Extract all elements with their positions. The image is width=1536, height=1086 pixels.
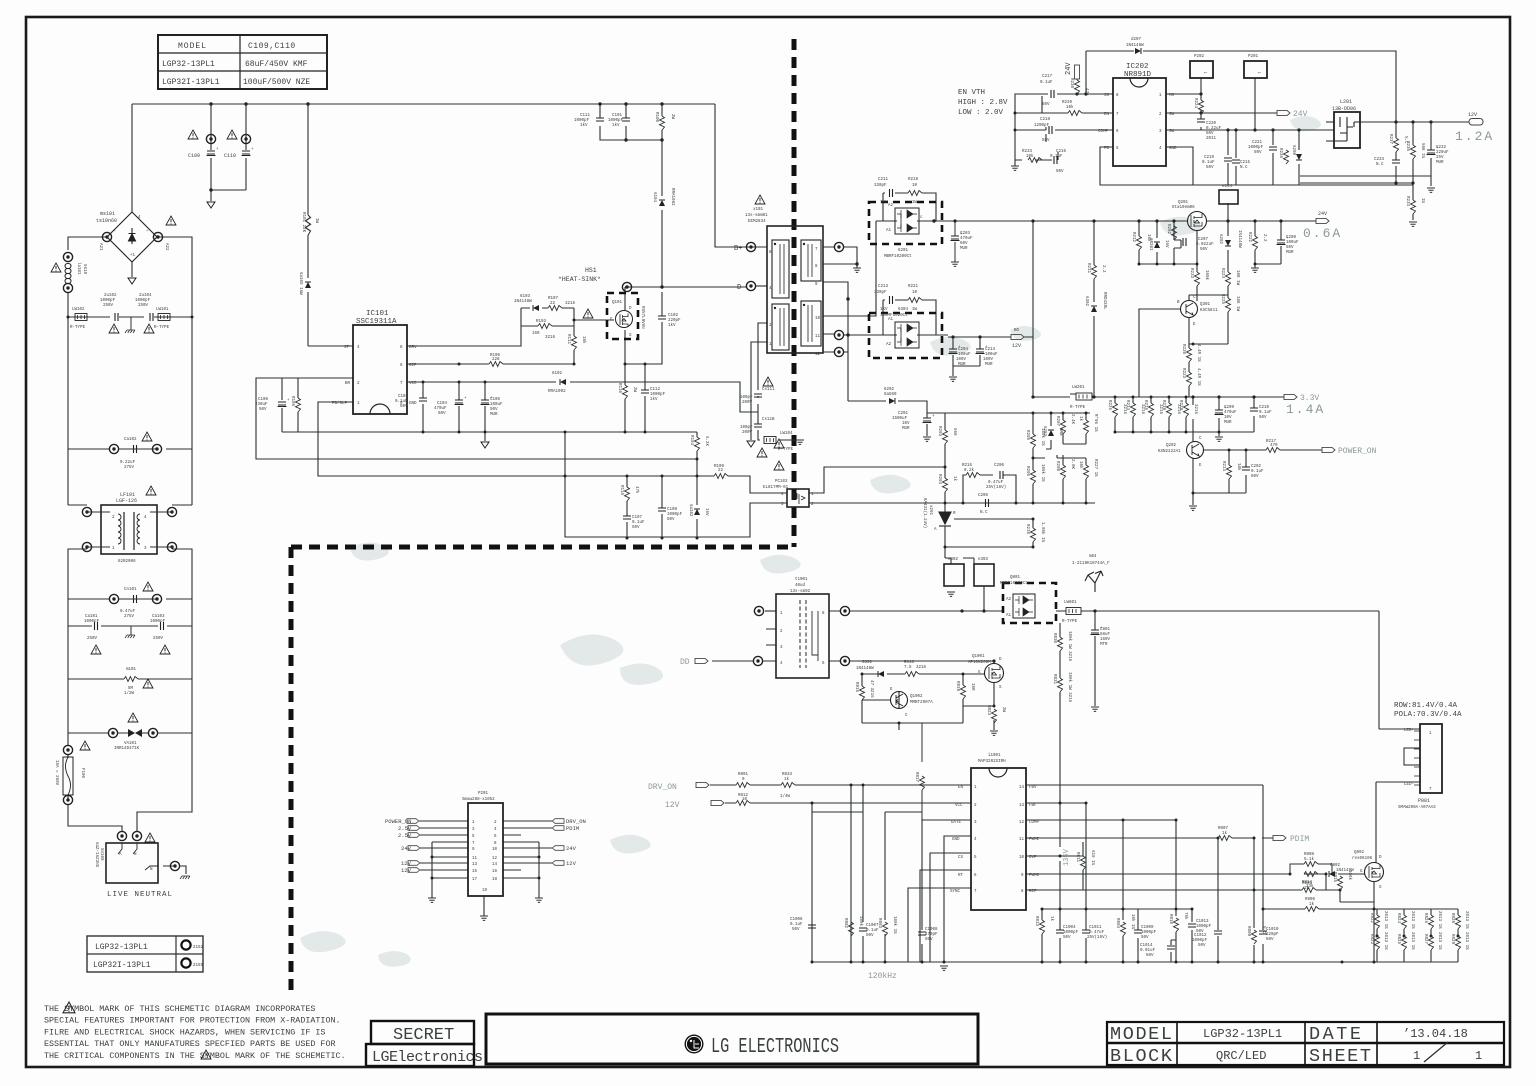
svg-text:i1001: i1001	[988, 753, 1001, 758]
svg-text:R226: R226	[1107, 400, 1111, 411]
svg-text:50V: 50V	[1141, 936, 1149, 940]
svg-text:6302: 6302	[1084, 296, 1088, 307]
svg-text:19: 19	[482, 889, 488, 893]
svg-text:4: 4	[974, 838, 977, 842]
svg-text:Q301: Q301	[1200, 303, 1211, 307]
svg-text:50V: 50V	[1259, 416, 1267, 420]
svg-text:10k: 10k	[1236, 463, 1241, 471]
diode 6103 1N4148W	[533, 305, 539, 311]
wire P201 pin19	[483, 896, 485, 916]
capacitor C103 0.1uF 50V	[419, 398, 427, 401]
capacitor C218 1200pF 50V	[1049, 126, 1052, 134]
svg-text:50V: 50V	[1146, 954, 1154, 958]
wire GIP net	[407, 363, 574, 365]
diode d207 1N4148W	[1135, 48, 1141, 54]
svg-text:MUR: MUR	[1286, 251, 1294, 255]
resistor R104 6.2K	[695, 437, 700, 451]
svg-text:4.4R 1%: 4.4R 1%	[1196, 368, 1200, 386]
heat sink HS1 dashed box + Q101	[607, 293, 638, 339]
svg-text:MUR: MUR	[902, 427, 910, 431]
capacitor C209 470uF 10V MUR	[1215, 407, 1228, 415]
svg-text:C101: C101	[612, 114, 623, 118]
wire C109 C110 drops	[211, 104, 246, 201]
node BD 12V flag	[1011, 334, 1024, 339]
svg-text:25V: 25V	[1436, 156, 1444, 160]
wire 3.3V rail	[1033, 394, 1284, 397]
wire P201 left pins	[419, 821, 468, 878]
svg-text:R816: R816	[854, 682, 858, 693]
capacitor 2a104 1000pF 250V	[150, 313, 153, 321]
svg-text:ROW:81.4V/0.4A: ROW:81.4V/0.4A	[1394, 702, 1458, 710]
svg-text:10K 1W: 10K 1W	[1235, 296, 1239, 312]
capacitor C220 0.22uF 50V 2011	[1197, 119, 1205, 122]
svg-text:1: 1	[1159, 94, 1162, 98]
svg-text:10k 1%: 10k 1%	[1130, 914, 1135, 930]
wire Ca101 row y626	[68, 599, 192, 733]
svg-text:250V: 250V	[138, 304, 149, 308]
svg-text:50V: 50V	[1042, 139, 1050, 143]
svg-text:1500uF: 1500uF	[892, 417, 908, 421]
svg-text:C102: C102	[668, 314, 679, 318]
svg-text:BD: BD	[1014, 329, 1020, 333]
svg-text:LGP32-13PL1: LGP32-13PL1	[95, 943, 148, 952]
svg-text:GATE: GATE	[951, 821, 962, 825]
wire t1001 pin8 out	[829, 586, 1003, 611]
capacitor C1010 220pF 50V	[1259, 931, 1267, 934]
svg-text:6a105 16W: 6a105 16W	[298, 272, 302, 295]
svg-text:R808: R808	[1304, 853, 1315, 857]
resistor bank R822-R829	[1369, 911, 1468, 950]
svg-text:R101 22K: R101 22K	[301, 212, 305, 233]
wire C103 C104 C105	[423, 382, 485, 441]
svg-text:MUR: MUR	[985, 363, 993, 367]
svg-text:C214: C214	[985, 348, 996, 352]
SECRET box	[366, 1021, 483, 1066]
svg-text:9: 9	[1021, 874, 1024, 878]
svg-text:C1014: C1014	[1140, 944, 1153, 948]
svg-text:C107: C107	[632, 516, 643, 520]
svg-text:R236: R236	[1278, 148, 1282, 159]
svg-text:E: E	[890, 688, 893, 692]
svg-text:3216: 3216	[916, 666, 927, 670]
svg-text:N.C: N.C	[980, 511, 988, 515]
svg-text:R827: R827	[1423, 934, 1427, 945]
svg-text:*HEAT-SINK*: *HEAT-SINK*	[558, 276, 601, 283]
svg-text:10k: 10k	[1078, 461, 1083, 469]
svg-text:C104: C104	[437, 402, 448, 406]
svg-text:C111: C111	[580, 114, 591, 118]
text EN VTH	[958, 89, 1008, 117]
svg-text:50V: 50V	[1206, 166, 1214, 170]
transformer T101 x101 13s-smm01 EEM2834	[745, 195, 823, 357]
svg-text:0.1uF: 0.1uF	[1251, 470, 1264, 474]
svg-text:C215: C215	[1240, 161, 1251, 165]
svg-text:SW: SW	[1169, 113, 1175, 117]
svg-text:1kV: 1kV	[650, 397, 658, 402]
svg-text:R223: R223	[1181, 368, 1185, 379]
svg-text:e144: e144	[1222, 185, 1233, 189]
svg-text:16V: 16V	[704, 508, 708, 516]
svg-text:1000pF: 1000pF	[84, 620, 100, 624]
svg-text:1: 1	[112, 547, 115, 551]
svg-text:R826: R826	[1423, 913, 1427, 924]
svg-text:250V: 250V	[87, 637, 98, 641]
svg-text:la101: la101	[76, 262, 81, 275]
svg-text:A2: A2	[1006, 598, 1012, 602]
svg-text:50V: 50V	[1251, 475, 1259, 479]
wire Q301 snubber	[883, 193, 936, 221]
svg-text:e302: e302	[948, 558, 959, 562]
svg-text:6a102: 6a102	[688, 504, 692, 517]
svg-text:C1012: C1012	[1194, 934, 1207, 938]
svg-text:R205: R205	[1025, 430, 1029, 441]
svg-text:47k: 47k	[634, 486, 639, 494]
svg-text:10: 10	[912, 291, 918, 295]
svg-text:R103: R103	[536, 320, 547, 324]
bridge rectifier ms101	[107, 212, 157, 262]
wire bridge left to filter	[68, 237, 107, 317]
watermark blobs	[300, 116, 1321, 967]
pad t101 pin7	[834, 242, 843, 251]
resistor R802 100k	[849, 922, 854, 936]
wire P144 drop + diode R224 R225 chain	[1227, 203, 1229, 344]
svg-text:8: 8	[815, 265, 818, 269]
svg-text:R214: R214	[1221, 461, 1225, 472]
svg-text:C220: C220	[1206, 122, 1217, 126]
svg-text:N: N	[134, 853, 137, 857]
svg-text:R203: R203	[937, 426, 941, 437]
svg-text:COMP: COMP	[1029, 821, 1040, 825]
svg-text:2: 2	[811, 503, 814, 507]
svg-text:ms101: ms101	[100, 211, 115, 217]
svg-text:2013 1%: 2013 1%	[1383, 911, 1387, 929]
svg-text:C1013: C1013	[1196, 920, 1209, 924]
transistor Q802 FDD6635	[1365, 863, 1384, 882]
wire Q201 gate drop	[1196, 231, 1198, 301]
fuse F100 15A 250V	[63, 745, 72, 754]
wire P202 drop	[1200, 78, 1202, 94]
wire aux winding cluster	[751, 323, 800, 440]
svg-text:50V: 50V	[1198, 944, 1206, 948]
connector P303	[974, 564, 994, 586]
svg-text:D: D	[1379, 856, 1382, 860]
svg-text:10UMF1020Ct: 10UMF1020Ct	[880, 314, 908, 318]
svg-text:R202: R202	[1166, 224, 1170, 235]
svg-text:56K 1%: 56K 1%	[1420, 143, 1424, 159]
svg-text:RRA1002: RRA1002	[548, 390, 566, 394]
capacitor C1007 0.1uF 50V	[859, 928, 867, 931]
capacitor C207 0.022uF 50V	[1183, 238, 1186, 246]
wire SW pin3 to L201	[1166, 78, 1334, 158]
svg-text:25V(16V): 25V(16V)	[986, 485, 1006, 490]
capacitor C208 100uF 50V MUR	[1277, 237, 1290, 245]
svg-text:LED+: LED+	[1404, 729, 1415, 733]
capacitor C106 230uF 50V	[278, 399, 291, 407]
diode 6104 RRA1002	[659, 200, 665, 206]
svg-text:LGElectronics: LGElectronics	[372, 1049, 483, 1066]
wire Q802 area	[1326, 782, 1376, 962]
svg-text:4: 4	[780, 662, 783, 666]
svg-text:610 1%: 610 1%	[1090, 850, 1094, 866]
svg-text:470: 470	[1270, 444, 1278, 448]
svg-text:9: 9	[472, 848, 475, 852]
svg-text:160V: 160V	[1100, 638, 1111, 642]
svg-text:D: D	[999, 658, 1002, 662]
connector P801 SMAW200A-A07AA3	[1398, 724, 1442, 810]
transformer LF101 line filter	[101, 505, 157, 554]
svg-text:1.05k 1%: 1.05k 1%	[1040, 522, 1045, 543]
capacitor Cn101 0.47uF 275V	[109, 594, 118, 603]
wire t1001 pin1 pad	[765, 610, 776, 612]
svg-text:A: A	[934, 528, 937, 532]
capacitor C201 1500uF 10V MUR	[923, 415, 936, 423]
svg-text:6a560: 6a560	[884, 393, 897, 397]
capacitor C801 68uF 160V MTR	[1091, 627, 1104, 635]
svg-text:3216: 3216	[1140, 404, 1144, 415]
svg-text:5: 5	[822, 662, 825, 666]
node PDIM flag	[1273, 835, 1286, 840]
svg-text:res06106: res06106	[1352, 857, 1373, 861]
primary winding sub-boxes	[772, 240, 821, 350]
svg-text:7: 7	[1116, 113, 1119, 117]
svg-text:3216: 3216	[1158, 404, 1162, 415]
svg-text:BR: BR	[345, 382, 351, 386]
resistor R103 160 3216	[538, 324, 552, 329]
svg-text:275V: 275V	[124, 615, 135, 619]
capacitor C1013 1000pF 50V	[1188, 924, 1196, 927]
capacitor C105 100uF 50V MUR	[481, 397, 494, 405]
svg-text:C209: C209	[1224, 406, 1235, 410]
wire gate pin3	[922, 723, 971, 820]
svg-text:R224: R224	[1193, 98, 1197, 109]
svg-text:P202: P202	[1194, 55, 1205, 59]
svg-text:R225: R225	[1220, 294, 1224, 305]
capacitor C202 0.1uF 50V	[1242, 467, 1250, 470]
svg-text:A22: A22	[164, 243, 168, 251]
svg-text:C1010: C1010	[1266, 928, 1279, 932]
svg-text:250V: 250V	[153, 637, 164, 641]
resistor R814 23k	[1302, 888, 1316, 893]
svg-text:Q1002: Q1002	[910, 695, 923, 699]
svg-text:R216: R216	[962, 464, 973, 468]
svg-text:10: 10	[1019, 856, 1025, 860]
svg-text:50V: 50V	[667, 518, 675, 522]
svg-text:50V: 50V	[400, 405, 408, 409]
resistor R107 22 3216	[548, 306, 562, 311]
svg-text:220pF: 220pF	[1266, 933, 1279, 937]
svg-text:R818: R818	[904, 661, 915, 665]
svg-text:2u102: 2u102	[104, 294, 117, 298]
resistor R235 56K 1%	[1411, 145, 1416, 159]
svg-text:DRV_ON: DRV_ON	[566, 818, 586, 825]
svg-text:13: 13	[472, 863, 478, 867]
svg-text:16: 16	[492, 870, 498, 874]
node POWER_ON flag	[1322, 447, 1335, 452]
wire PC103 pin3	[565, 432, 787, 537]
svg-text:C1009: C1009	[1141, 926, 1154, 930]
svg-text:LOW : 2.0V: LOW : 2.0V	[958, 109, 1004, 117]
svg-text:E: E	[1199, 464, 1202, 468]
svg-text:KSN2222A1: KSN2222A1	[1158, 450, 1181, 454]
svg-text:EN: EN	[1104, 113, 1110, 117]
svg-text:7: 7	[472, 842, 475, 846]
svg-text:8: 8	[822, 612, 825, 616]
svg-text:0.1uF: 0.1uF	[1259, 411, 1272, 415]
resistor R812 10	[736, 801, 750, 806]
svg-text:6202006: 6202006	[118, 560, 136, 564]
svg-text:R817: R817	[914, 772, 918, 783]
svg-text:C221: C221	[1252, 141, 1263, 145]
svg-text:6R201: 6R201	[1148, 238, 1152, 251]
svg-text:LGF-126: LGF-126	[116, 498, 137, 504]
capacitor C1006 0.1uF 50V	[808, 925, 816, 928]
wire Q301 collector/emitter	[1139, 295, 1228, 397]
wire FB network rails	[824, 413, 1095, 503]
wire GND pin4	[1166, 147, 1413, 185]
svg-text:DD: DD	[680, 658, 690, 667]
svg-text:1: 1	[1429, 732, 1432, 736]
svg-text:275V: 275V	[124, 466, 135, 470]
wire PC103 pin1 feedback	[809, 467, 945, 493]
capacitor C219 0.1uF 50V	[1224, 158, 1232, 161]
svg-text:24V: 24V	[1065, 62, 1073, 75]
svg-text:50V: 50V	[1200, 248, 1208, 252]
svg-text:R-TYPE: R-TYPE	[778, 448, 794, 452]
wire DD pad to t1001	[712, 660, 776, 662]
resistor R223 4.4R 1%	[1187, 372, 1192, 386]
svg-text:220uF: 220uF	[1436, 151, 1449, 155]
svg-text:2013 1%: 2013 1%	[1410, 932, 1414, 950]
svg-text:x201: x201	[928, 505, 932, 516]
svg-text:R220: R220	[1181, 344, 1185, 355]
svg-text:S: S	[1379, 886, 1382, 890]
svg-text:’13.04.18: ’13.04.18	[1403, 1027, 1468, 1041]
svg-text:C1004: C1004	[1063, 926, 1076, 930]
svg-text:2: 2	[494, 821, 497, 825]
wire VCC net	[407, 382, 758, 412]
svg-text:R239: R239	[1062, 101, 1073, 105]
svg-text:C204: C204	[958, 348, 969, 352]
svg-text:470uF: 470uF	[434, 407, 447, 411]
wire R101 branch	[307, 104, 309, 346]
svg-text:A1: A1	[1006, 614, 1012, 618]
svg-text:1k: 1k	[1309, 902, 1315, 907]
svg-text:470pF: 470pF	[925, 933, 938, 937]
svg-text:1k: 1k	[1078, 416, 1083, 422]
svg-text:5M: 5M	[128, 687, 134, 691]
svg-text:c: c	[920, 216, 923, 220]
svg-text:6aZ-16Z3NG: 6aZ-16Z3NG	[94, 842, 98, 868]
svg-text:PWMO: PWMO	[1029, 874, 1040, 878]
svg-text:12V: 12V	[566, 860, 577, 867]
wire MS pin right	[1166, 94, 1201, 100]
wire B+ bus top	[132, 103, 715, 105]
svg-text:C206: C206	[994, 464, 1005, 468]
svg-text:10k: 10k	[1066, 105, 1074, 110]
wire out rails	[1300, 176, 1431, 220]
svg-text:FILRE AND ELECTRICAL SHOCK HAZ: FILRE AND ELECTRICAL SHOCK HAZARDS, WHEN…	[44, 1027, 325, 1037]
svg-text:1000pF: 1000pF	[1141, 931, 1157, 935]
node 24V flag	[1277, 110, 1290, 115]
svg-text:0.01uF: 0.01uF	[1140, 949, 1156, 953]
resistor R211 2.2	[1092, 265, 1097, 279]
page split dashed line horizontal	[291, 545, 794, 550]
svg-text:18: 18	[492, 878, 498, 882]
svg-text:1%: 1%	[1420, 198, 1424, 204]
svg-text:3: 3	[472, 828, 475, 832]
LGP32 model/connector table bottom-left	[87, 936, 204, 972]
svg-text:C210: C210	[1259, 406, 1270, 410]
svg-text:R218: R218	[908, 178, 919, 182]
svg-text:10R: 10R	[970, 683, 974, 691]
svg-text:ts10n60: ts10n60	[96, 218, 117, 224]
resistor R237	[1394, 138, 1399, 152]
wire bridge bottom gnd	[131, 262, 133, 277]
svg-text:C216: C216	[1056, 150, 1067, 154]
svg-text:50V: 50V	[1206, 132, 1214, 136]
inductor L201 13B-DD06	[1334, 112, 1360, 148]
svg-text:1kV: 1kV	[580, 123, 588, 128]
svg-text:3: 3	[781, 503, 784, 507]
wire IC1001 left pins gnd	[908, 836, 971, 962]
svg-text:C109: C109	[188, 153, 200, 159]
svg-text:d207: d207	[1131, 37, 1142, 42]
svg-text:AP10N20GM: AP10N20GM	[968, 661, 991, 665]
svg-text:50V: 50V	[438, 412, 446, 416]
svg-text:16V: 16V	[1164, 240, 1168, 248]
svg-text:6201: 6201	[898, 249, 909, 253]
wire x1094 drop R211 6302	[1093, 221, 1095, 397]
svg-text:E: E	[1193, 323, 1196, 327]
svg-text:5: 5	[1116, 147, 1119, 151]
wire B+ drop right	[715, 104, 746, 247]
svg-text:C: C	[1193, 296, 1196, 300]
svg-text:B: B	[1177, 301, 1180, 305]
diode 6102 RRA1002	[560, 379, 566, 385]
svg-text:Smaw288-x1052: Smaw288-x1052	[462, 798, 495, 802]
svg-text:HS1: HS1	[585, 267, 597, 274]
capacitor C102 220pF 1kV	[658, 316, 666, 319]
svg-text:1: 1	[974, 786, 977, 790]
svg-text:R829: R829	[1450, 934, 1454, 945]
svg-text:R221: R221	[908, 285, 919, 289]
svg-text:10: 10	[492, 848, 498, 852]
svg-text:C: C	[905, 714, 908, 718]
wire t1001 stubs	[766, 629, 776, 645]
svg-text:A1: A1	[888, 318, 894, 322]
svg-text:1KV: 1KV	[880, 201, 888, 205]
varistor VA101 INR14D471K	[108, 728, 117, 737]
wire R222 C208	[1255, 221, 1281, 268]
note text	[44, 1004, 346, 1061]
dual diode Q304 MBRF10200Ct	[869, 313, 942, 358]
svg-text:1k: 1k	[1049, 916, 1054, 922]
resistor R206 100k	[1031, 470, 1036, 484]
svg-text:3216: 3216	[565, 302, 576, 306]
svg-text:e303: e303	[978, 558, 989, 562]
wire x1033 drop	[1032, 221, 1034, 397]
resistor R817	[920, 776, 925, 790]
AC inlet connector SN100	[106, 843, 158, 883]
svg-text:N.C: N.C	[1261, 926, 1265, 934]
svg-text:1: 1	[1413, 1049, 1420, 1063]
svg-text:2152: 2152	[193, 946, 204, 950]
svg-text:C201: C201	[898, 412, 909, 416]
svg-text:MUR: MUR	[958, 363, 966, 367]
svg-text:47k: 47k	[1084, 88, 1089, 96]
svg-text:m64: m64	[1089, 555, 1097, 559]
wire B+ bus drop to bridge	[131, 104, 133, 212]
